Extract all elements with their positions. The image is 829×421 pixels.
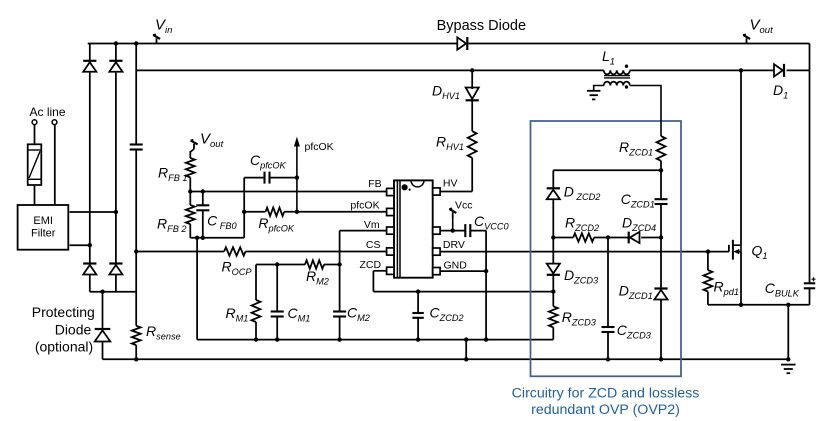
node Vout tick xyxy=(746,38,748,43)
wire D_ZCD4 lead xyxy=(608,237,629,239)
wire input vertical xyxy=(135,44,137,145)
node Vcc tick xyxy=(452,217,454,231)
resistor R_FB2 xyxy=(186,205,195,224)
wire C_M1 vertical xyxy=(276,265,278,312)
svg-text:Bypass Diode: Bypass Diode xyxy=(437,18,526,34)
svg-text:Vcc: Vcc xyxy=(455,200,473,212)
junction dot GND vert xyxy=(484,269,488,273)
wire DZCD1 down xyxy=(660,300,662,360)
svg-text:Ac line: Ac line xyxy=(30,105,66,119)
svg-text:pfcOK: pfcOK xyxy=(305,141,334,153)
svg-text:Circuitry for ZCD and lossles: Circuitry for ZCD and lossless xyxy=(512,386,700,402)
resistor R_ZCD3 xyxy=(549,306,558,327)
wire RFB1 top xyxy=(190,149,194,152)
wire right vertical Vout xyxy=(809,44,811,284)
resistor R_pfcOK xyxy=(266,208,285,216)
wire ground drop xyxy=(787,305,789,360)
OVP2 box xyxy=(531,121,682,376)
wire DZCD2 down xyxy=(552,199,554,263)
resistor R_FB1 xyxy=(186,158,195,177)
svg-text:Protecting: Protecting xyxy=(32,304,95,320)
wire R_pd1 leads xyxy=(707,252,709,271)
junction dot ZCD CZCD2 xyxy=(416,289,420,293)
U1 pins xyxy=(387,188,394,195)
wire R_M1 vertical xyxy=(255,265,257,301)
capacitor C_ZCD3 xyxy=(602,326,615,328)
wire L1 secondary left xyxy=(594,86,604,91)
wire DZCD3 down xyxy=(552,275,554,292)
wire ZCD stub xyxy=(373,270,386,272)
wire GND line xyxy=(440,270,486,272)
svg-text:EMI: EMI xyxy=(33,215,53,227)
wire CZCD1 down xyxy=(660,204,662,289)
wire RFB2 bottom xyxy=(189,224,191,238)
capacitor C_FB0 xyxy=(196,204,209,206)
wire EMI top output xyxy=(70,211,116,213)
wire comp ground drop xyxy=(196,238,198,340)
wire C_FB0 vertical xyxy=(202,192,204,206)
EMI filter box xyxy=(18,205,69,250)
inductor L1 xyxy=(604,70,611,74)
ground main xyxy=(781,364,796,366)
wire AC leads xyxy=(34,125,36,145)
resistor R_ZCD1 xyxy=(657,136,666,161)
diode bridge lower-left xyxy=(83,265,96,275)
bypass diode xyxy=(457,37,466,49)
capacitor C_ZCD2 xyxy=(412,312,423,314)
diode D_ZCD3 xyxy=(547,264,560,274)
wire pfcOK line xyxy=(244,211,265,213)
node CS junction xyxy=(134,249,138,253)
svg-text:(optional): (optional) xyxy=(35,338,93,354)
svg-text:FB: FB xyxy=(368,178,381,190)
capacitor C_M1 xyxy=(271,310,284,312)
resistor R_HV1 xyxy=(468,131,477,158)
capacitor C_M2 xyxy=(333,310,346,312)
resistor R_M2 xyxy=(305,260,324,268)
svg-text:ZCD: ZCD xyxy=(360,259,382,271)
wire RZCD3 leads xyxy=(552,292,554,307)
ground L1 xyxy=(587,90,601,92)
op-amp U1 body xyxy=(394,180,433,277)
capacitor C_VCC0 xyxy=(464,224,466,237)
wire Vcc line xyxy=(440,230,465,232)
svg-text:Diode: Diode xyxy=(55,322,92,338)
svg-text:HV: HV xyxy=(443,178,458,190)
resistor R_OCP xyxy=(224,247,245,255)
junction dot Vm comp xyxy=(337,262,341,266)
wire ZCD top link xyxy=(553,169,661,171)
AC terminal circles xyxy=(32,120,37,125)
svg-text:redundant OVP (OVP2): redundant OVP (OVP2) xyxy=(531,402,680,418)
wire RZCD1 bottom xyxy=(660,161,662,199)
resistor R_pd1 xyxy=(704,270,713,291)
transistor Q1 xyxy=(732,240,734,260)
junction dots ground rail xyxy=(464,357,468,361)
wire Cvcc0 down xyxy=(485,231,487,340)
wire rail link xyxy=(465,340,467,360)
node Vout hook xyxy=(193,144,195,149)
diode D_ZCD1 xyxy=(654,290,667,300)
wire FB bottom bus xyxy=(190,237,244,239)
capacitor C_BULK xyxy=(804,282,815,284)
diode D1 xyxy=(774,64,783,76)
junction dot rsense bottom xyxy=(134,357,138,361)
wire CZCD3 vertical xyxy=(607,238,609,328)
wire gate xyxy=(708,251,729,253)
junction dots top rail xyxy=(114,41,118,45)
wire bridge left vertical xyxy=(89,44,91,61)
diode bridge upper-left xyxy=(83,62,96,72)
wire CS line xyxy=(136,251,224,253)
wire Q1 source xyxy=(740,252,742,305)
wire RHV1 to DHV1 xyxy=(471,100,473,131)
wire bridge bottom xyxy=(90,291,136,293)
wire L1 secondary right xyxy=(630,86,661,137)
diode bridge upper-right xyxy=(109,62,122,72)
junction dots second rail xyxy=(470,68,474,72)
capacitor C_pfcOK xyxy=(263,172,265,184)
resistor R_sense xyxy=(132,326,141,345)
diode bridge lower-right xyxy=(109,265,122,275)
wire HV net xyxy=(440,191,472,193)
wire DRV line xyxy=(440,251,708,253)
wire EMI bottom output xyxy=(70,244,90,246)
wire fuse to EMI xyxy=(34,185,36,205)
capacitor input filter xyxy=(130,143,143,145)
diode D_ZCD4 xyxy=(630,232,640,243)
wire top Vin rail xyxy=(88,43,458,45)
diode protecting xyxy=(95,330,111,341)
wire Vm line xyxy=(340,230,387,232)
wire CpfcOK left vertical xyxy=(243,178,245,238)
node Vin tick xyxy=(156,38,158,43)
svg-text:pfcOK: pfcOK xyxy=(350,200,379,212)
wire bottom ground rail xyxy=(103,358,789,360)
diode D_ZCD2 xyxy=(547,190,560,200)
wire R_ZCD2 line xyxy=(553,237,573,239)
wire source bottom xyxy=(708,304,810,306)
svg-text:CS: CS xyxy=(366,239,381,251)
svg-text:DRV: DRV xyxy=(443,239,465,251)
capacitor C_ZCD1 xyxy=(655,198,668,200)
wire CpfcOK line xyxy=(244,177,264,179)
wire bridge right vertical xyxy=(115,44,117,61)
resistor R_M1 xyxy=(252,300,261,322)
svg-text:Filter: Filter xyxy=(31,228,56,240)
diode D_HV1 xyxy=(466,88,479,99)
wire C_ZCD2 vertical xyxy=(417,292,419,313)
wire second rail xyxy=(136,69,604,71)
node pfcOK arrow xyxy=(296,145,298,212)
svg-text:Vm: Vm xyxy=(364,219,380,231)
wire protecting diode vertical xyxy=(102,292,104,329)
wire FB line xyxy=(190,191,386,193)
wire Q1 drain xyxy=(740,70,742,245)
wire comp ground rail xyxy=(197,339,553,341)
svg-text:GND: GND xyxy=(444,260,468,272)
resistor R_ZCD2 xyxy=(573,233,594,241)
junction dots comp rail xyxy=(254,337,258,341)
wire comp line xyxy=(256,264,305,266)
wire RFB1 to RFB2 xyxy=(189,177,191,205)
fuse xyxy=(28,144,42,185)
